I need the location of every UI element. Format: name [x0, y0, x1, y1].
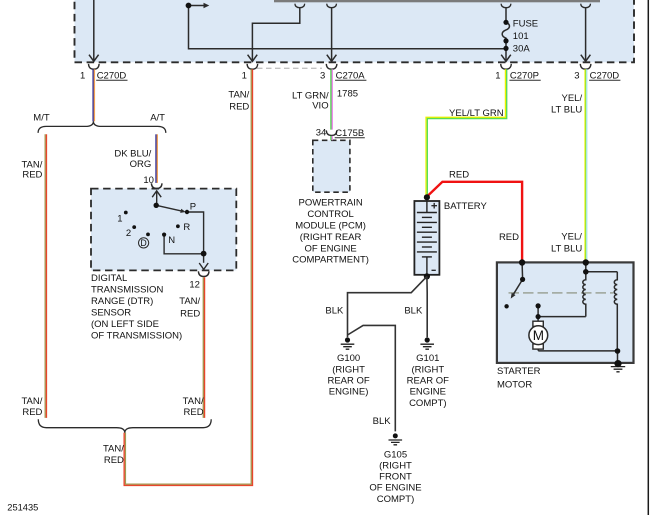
svg-text:34: 34: [316, 128, 327, 139]
svg-text:RED: RED: [229, 101, 249, 112]
svg-text:SENSOR: SENSOR: [91, 308, 131, 319]
svg-text:(RIGHT: (RIGHT: [411, 364, 444, 375]
svg-text:G101: G101: [416, 353, 439, 364]
svg-text:A/T: A/T: [150, 113, 165, 124]
svg-text:TAN/: TAN/: [228, 89, 249, 100]
svg-text:MOTOR: MOTOR: [497, 379, 532, 390]
svg-text:LT BLU: LT BLU: [551, 104, 582, 115]
svg-text:CONTROL: CONTROL: [307, 209, 353, 220]
svg-text:RED: RED: [22, 407, 42, 418]
svg-text:POWERTRAIN: POWERTRAIN: [298, 198, 362, 209]
svg-text:YEL/: YEL/: [561, 93, 582, 104]
svg-text:1: 1: [495, 70, 500, 81]
svg-text:RED: RED: [104, 455, 124, 466]
svg-text:N: N: [168, 235, 175, 246]
svg-text:P: P: [190, 202, 196, 213]
svg-text:FRONT: FRONT: [379, 472, 412, 483]
svg-text:COMPT): COMPT): [377, 494, 414, 505]
svg-text:OF TRANSMISSION): OF TRANSMISSION): [91, 330, 182, 341]
svg-text:TRANSMISSION: TRANSMISSION: [91, 285, 163, 296]
svg-text:RED: RED: [184, 407, 204, 418]
svg-text:(RIGHT: (RIGHT: [332, 364, 365, 375]
svg-text:FUSE: FUSE: [513, 19, 538, 30]
svg-text:10: 10: [143, 175, 154, 186]
svg-text:TAN/: TAN/: [103, 443, 124, 454]
svg-text:101: 101: [513, 31, 529, 42]
svg-text:12: 12: [189, 280, 200, 291]
svg-text:C270A: C270A: [336, 70, 366, 81]
svg-text:TAN/: TAN/: [179, 296, 200, 307]
svg-text:ENGINE: ENGINE: [410, 387, 446, 398]
svg-text:3: 3: [574, 70, 579, 81]
svg-text:1785: 1785: [337, 88, 358, 99]
svg-text:STARTER: STARTER: [497, 366, 541, 377]
svg-text:C175B: C175B: [335, 128, 364, 139]
svg-text:3: 3: [320, 70, 325, 81]
svg-text:M: M: [533, 328, 544, 343]
svg-text:D: D: [140, 238, 146, 248]
svg-text:REAR OF: REAR OF: [407, 376, 449, 387]
svg-text:TAN/: TAN/: [183, 396, 204, 407]
svg-text:30A: 30A: [513, 43, 531, 54]
svg-text:OF ENGINE: OF ENGINE: [369, 483, 421, 494]
svg-text:DIGITAL: DIGITAL: [91, 273, 127, 284]
svg-text:COMPT): COMPT): [409, 398, 446, 409]
svg-text:R: R: [183, 222, 190, 233]
svg-text:C270P: C270P: [510, 70, 539, 81]
svg-text:RED: RED: [22, 169, 42, 180]
svg-text:REAR OF: REAR OF: [327, 376, 369, 387]
svg-text:G105: G105: [384, 449, 407, 460]
svg-text:VIO: VIO: [312, 101, 328, 112]
svg-text:YEL/: YEL/: [561, 232, 582, 243]
svg-text:RED: RED: [449, 169, 469, 180]
svg-text:OF ENGINE: OF ENGINE: [304, 243, 356, 254]
svg-text:1: 1: [80, 70, 85, 81]
svg-text:251435: 251435: [7, 503, 38, 513]
svg-text:(RIGHT REAR: (RIGHT REAR: [300, 232, 362, 243]
svg-text:BLK: BLK: [404, 306, 423, 317]
svg-text:(ON LEFT SIDE: (ON LEFT SIDE: [91, 319, 159, 330]
svg-text:(RIGHT: (RIGHT: [379, 461, 412, 472]
svg-text:ENGINE): ENGINE): [329, 387, 369, 398]
svg-text:COMPARTMENT): COMPARTMENT): [292, 255, 369, 266]
svg-text:BATTERY: BATTERY: [444, 201, 488, 212]
svg-text:MODULE (PCM): MODULE (PCM): [295, 221, 366, 232]
svg-text:1: 1: [242, 70, 247, 81]
svg-text:RANGE (DTR): RANGE (DTR): [91, 296, 153, 307]
svg-text:ORG: ORG: [130, 159, 152, 170]
svg-text:G100: G100: [337, 353, 360, 364]
svg-text:M/T: M/T: [33, 113, 50, 124]
svg-text:1: 1: [117, 214, 122, 225]
svg-text:2: 2: [126, 228, 131, 239]
svg-text:YEL/LT GRN: YEL/LT GRN: [449, 108, 504, 119]
svg-text:BLK: BLK: [373, 416, 392, 427]
svg-text:LT BLU: LT BLU: [551, 243, 582, 254]
svg-text:C270D: C270D: [97, 70, 127, 81]
svg-text:RED: RED: [180, 309, 200, 320]
svg-text:TAN/: TAN/: [21, 396, 42, 407]
svg-text:RED: RED: [499, 232, 519, 243]
svg-text:DK BLU/: DK BLU/: [114, 148, 151, 159]
svg-text:C270D: C270D: [590, 70, 620, 81]
svg-text:BLK: BLK: [325, 306, 344, 317]
